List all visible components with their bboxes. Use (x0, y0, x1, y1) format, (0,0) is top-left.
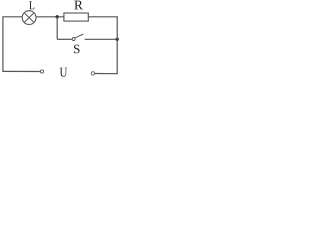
label U (60, 68, 67, 77)
wire top left to lamp (2, 16, 22, 18)
wire right vertical (116, 17, 118, 74)
wire switch left (57, 38, 72, 40)
terminal circle right (91, 72, 94, 75)
wire switch right (85, 38, 118, 40)
label L (29, 1, 34, 9)
wire lamp to top-right corner (36, 16, 118, 18)
lamp L (22, 11, 36, 25)
terminal circle left (40, 70, 43, 73)
background (0, 0, 120, 82)
label S (74, 45, 80, 54)
wire bottom left (2, 70, 40, 72)
node junction dot right (116, 38, 119, 41)
node junction dot (56, 15, 59, 18)
wire bottom right (95, 73, 118, 75)
switch S blade (75, 34, 83, 38)
resistor R (64, 13, 88, 21)
label R (74, 1, 82, 10)
switch S contact circle (72, 38, 75, 41)
wire branch vertical (56, 17, 58, 40)
wire left vertical (2, 17, 4, 72)
